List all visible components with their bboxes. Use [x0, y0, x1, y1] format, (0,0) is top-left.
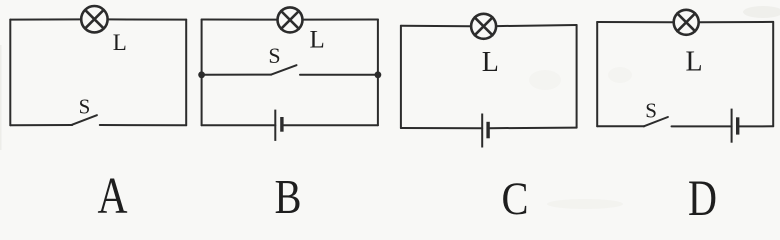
switch S (circuit A, open lever): [72, 115, 97, 125]
wire: circuit A left side: [9, 20, 11, 126]
wire: circuit B top-right segment: [304, 19, 378, 21]
junction node (circuit B left): [198, 71, 205, 78]
wire: circuit D bottom middle segment: [672, 125, 732, 127]
svg-text:L: L: [482, 47, 499, 78]
svg-text:B: B: [275, 169, 302, 217]
switch S (circuit B, open lever): [271, 65, 296, 74]
wire: circuit D bottom-right segment: [738, 125, 774, 127]
wire: circuit B top-left segment: [202, 19, 277, 21]
lamp L (circuit D): [674, 10, 699, 35]
battery (circuit D) negative plate: [736, 117, 739, 134]
svg-text:S: S: [79, 95, 91, 119]
wire: circuit D top-right segment: [700, 21, 773, 23]
wire: circuit B middle branch right segment: [300, 74, 378, 76]
svg-text:L: L: [686, 47, 703, 78]
battery (circuit B) positive plate: [274, 110, 276, 141]
wire: circuit A bottom-left segment: [10, 124, 72, 126]
battery (circuit C) positive plate: [481, 114, 483, 148]
lamp L (circuit A): [81, 6, 107, 32]
svg-text:S: S: [268, 43, 280, 68]
wire: circuit C right side: [576, 25, 578, 128]
wire: circuit A top-right segment: [108, 18, 186, 20]
svg-text:D: D: [688, 171, 717, 217]
svg-text:S: S: [645, 99, 657, 123]
wire: circuit B bottom-left segment: [202, 124, 276, 126]
junction node (circuit B right): [375, 71, 382, 78]
wire: circuit C bottom-right segment: [488, 127, 576, 130]
svg-text:A: A: [98, 168, 128, 217]
wire: circuit C top-left segment: [401, 25, 470, 27]
wire: circuit D bottom-left segment: [597, 125, 644, 127]
lamp L (circuit C): [471, 14, 496, 39]
svg-text:L: L: [113, 30, 127, 55]
wire: circuit D right side: [772, 22, 774, 126]
wire: circuit D top-left segment: [597, 21, 672, 23]
wire: circuit C left side: [400, 26, 402, 128]
wire: circuit B middle branch left segment: [202, 74, 272, 76]
switch S (circuit D, open lever): [644, 117, 668, 126]
wire: circuit A bottom-right segment: [100, 124, 186, 126]
battery (circuit C) negative plate: [486, 122, 489, 139]
wire: circuit A top-left segment: [10, 18, 80, 20]
svg-text:C: C: [502, 173, 529, 217]
battery (circuit B) negative plate: [280, 117, 283, 132]
wire: circuit C top-right segment: [497, 25, 577, 26]
wire: circuit B bottom-right segment: [282, 124, 378, 126]
wire: circuit A right side: [185, 20, 187, 126]
svg-text:L: L: [310, 27, 325, 54]
wire: circuit D left side: [596, 22, 598, 126]
wire: circuit C bottom-left segment: [401, 127, 482, 129]
wire: circuit B left side: [201, 20, 203, 126]
battery (circuit D) positive plate: [731, 109, 733, 143]
lamp L (circuit B): [278, 7, 303, 32]
wire: circuit B right side: [377, 20, 379, 126]
